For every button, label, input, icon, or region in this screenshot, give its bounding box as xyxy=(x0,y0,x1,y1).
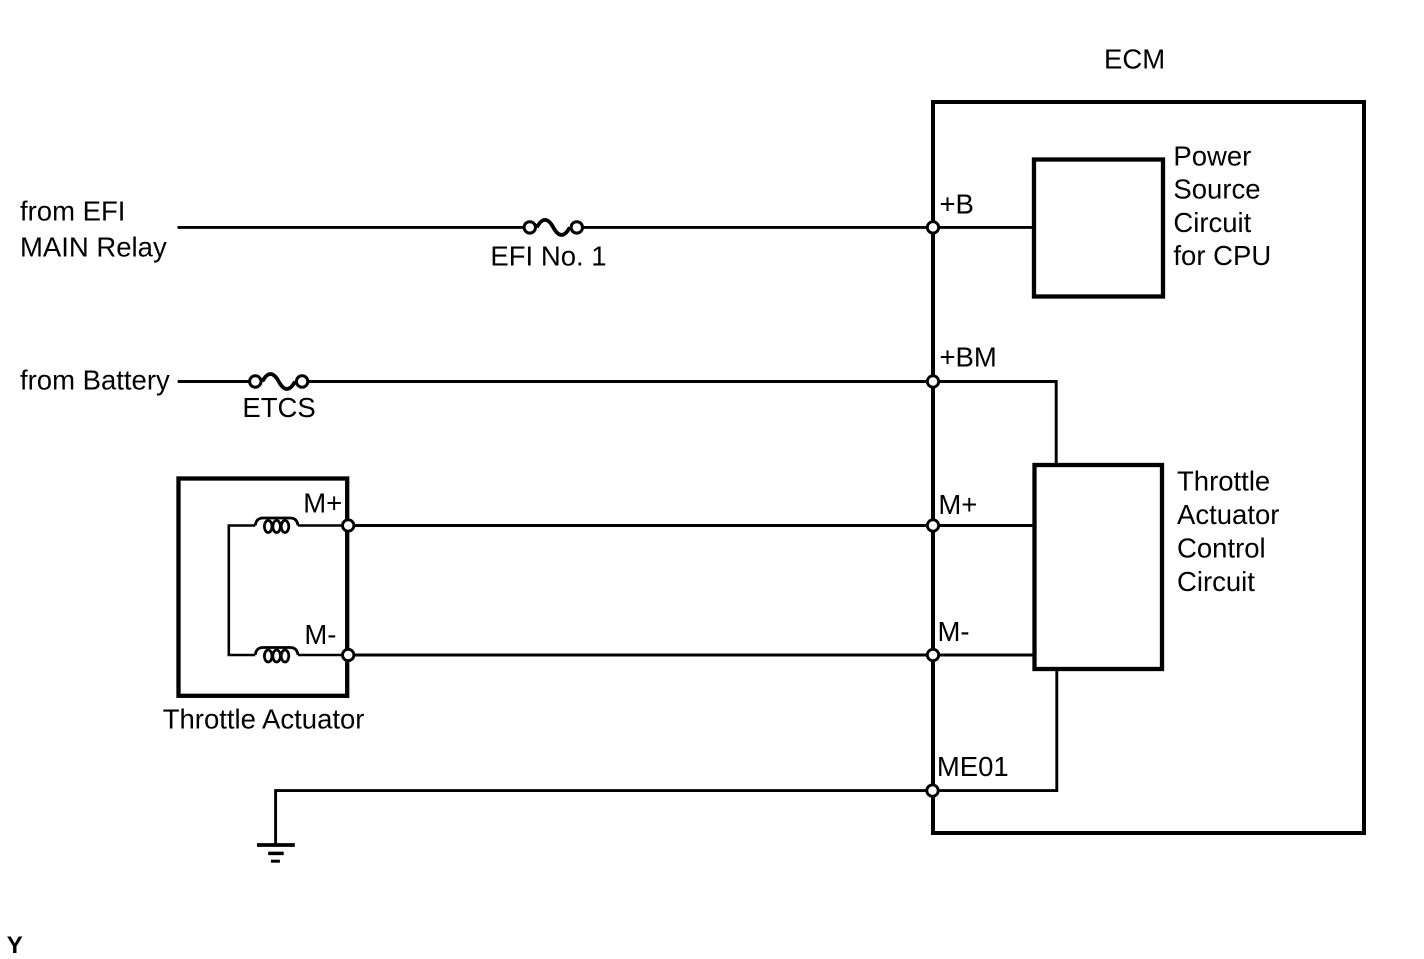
svg-text:from EFI: from EFI xyxy=(20,195,125,226)
svg-text:Circuit: Circuit xyxy=(1177,566,1255,597)
wire: from EFI MAIN Relay to fuse EFI No.1 xyxy=(178,226,525,229)
svg-text:Actuator: Actuator xyxy=(1177,499,1279,530)
node M- (ECM) xyxy=(927,649,938,660)
Throttle Actuator box xyxy=(179,479,348,696)
wire: actuator M+ to ECM M+ pin and Throttle block xyxy=(348,524,1034,527)
wire: fuse EFI No.1 to ECM +B pin xyxy=(583,226,934,229)
svg-text:+B: +B xyxy=(940,188,974,219)
ground symbol xyxy=(257,845,295,861)
wire: ME01 to ground xyxy=(276,791,933,844)
fuse ETCS xyxy=(250,374,308,389)
svg-text:M+: M+ xyxy=(938,489,977,520)
wire: bottom coil to M- node xyxy=(298,654,348,657)
svg-text:from Battery: from Battery xyxy=(20,365,170,396)
svg-text:M+: M+ xyxy=(303,487,342,518)
inductor coil L2 (motor winding lower) xyxy=(255,648,298,663)
node M+ (actuator) xyxy=(343,520,354,531)
wire: actuator inner loop xyxy=(229,526,255,656)
node +B xyxy=(927,222,938,233)
svg-text:for CPU: for CPU xyxy=(1173,240,1271,271)
svg-text:EFI No. 1: EFI No. 1 xyxy=(490,241,606,272)
svg-text:M-: M- xyxy=(938,616,970,647)
svg-text:ME01: ME01 xyxy=(937,751,1009,782)
wire: +BM pin to Throttle Actuator Control block top xyxy=(933,382,1056,465)
ECM box xyxy=(933,102,1364,833)
svg-text:ECM: ECM xyxy=(1104,43,1165,74)
svg-text:Y: Y xyxy=(7,932,23,959)
Throttle Actuator Control Circuit block U2 xyxy=(1035,465,1163,669)
node M+ (ECM) xyxy=(927,520,938,531)
wire: from Battery to fuse ETCS xyxy=(178,380,250,383)
svg-text:Throttle Actuator: Throttle Actuator xyxy=(163,703,365,734)
wire: fuse ETCS to ECM +BM pin xyxy=(308,380,933,383)
fuse EFI No. 1 xyxy=(524,220,582,235)
wire: actuator M- to ECM M- pin and Throttle block xyxy=(348,654,1034,657)
svg-text:Control: Control xyxy=(1177,533,1266,564)
node M- (actuator) xyxy=(343,649,354,660)
svg-text:MAIN Relay: MAIN Relay xyxy=(20,231,167,262)
node ME01 xyxy=(927,785,938,796)
svg-text:Throttle: Throttle xyxy=(1177,466,1270,497)
svg-text:Circuit: Circuit xyxy=(1173,207,1251,238)
svg-text:ETCS: ETCS xyxy=(242,392,315,423)
svg-text:+BM: +BM xyxy=(940,341,997,372)
svg-text:Source: Source xyxy=(1173,174,1260,205)
Power Source Circuit for CPU block U1 xyxy=(1034,160,1163,297)
wire: +B pin to Power Source block xyxy=(933,226,1034,229)
svg-text:Power: Power xyxy=(1173,141,1251,172)
wire: top coil to M+ node xyxy=(298,524,348,527)
inductor coil L1 (motor winding upper) xyxy=(255,518,298,533)
svg-text:M-: M- xyxy=(304,619,336,650)
wire: ME01 pin to Throttle block bottom xyxy=(933,670,1057,791)
node +BM xyxy=(927,376,938,387)
